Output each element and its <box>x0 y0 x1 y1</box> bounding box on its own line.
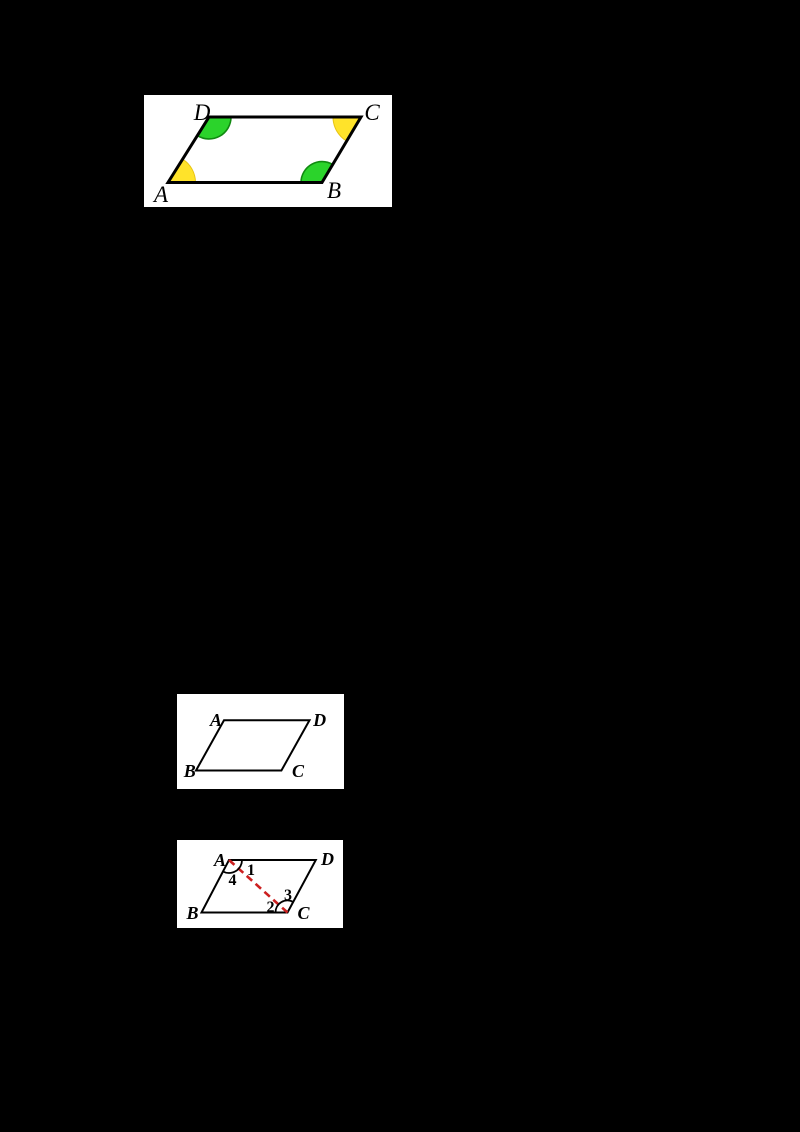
svg-text:A: A <box>209 710 222 730</box>
svg-text:A: A <box>213 850 226 870</box>
yellow angle wedge at A <box>168 159 196 182</box>
svg-text:3: 3 <box>284 887 292 904</box>
parallelogram outline <box>196 720 310 770</box>
yellow angle wedge at C <box>333 117 361 141</box>
svg-text:2: 2 <box>267 899 275 916</box>
red dashed diagonal AC <box>229 860 288 913</box>
green angle wedge at D <box>197 117 231 139</box>
svg-text:D: D <box>320 849 334 869</box>
parallelogram outline <box>202 860 316 913</box>
angle arc at C <box>275 900 293 912</box>
panel 2: plain parallelogram ABCD <box>177 694 344 789</box>
panel 3: parallelogram with red dashed diagonal AC and angles 1-4 <box>177 840 343 928</box>
svg-text:C: C <box>297 903 310 923</box>
svg-text:4: 4 <box>229 872 237 889</box>
green angle wedge at B <box>301 162 333 183</box>
angle arc at A <box>223 860 242 873</box>
svg-text:B: B <box>185 903 198 923</box>
svg-text:D: D <box>193 100 211 125</box>
svg-text:C: C <box>292 761 305 781</box>
panel 1: parallelogram ABCD with colored angle wedges <box>144 95 392 207</box>
svg-text:C: C <box>364 100 380 125</box>
svg-text:1: 1 <box>247 862 255 879</box>
svg-text:A: A <box>152 182 169 207</box>
svg-text:D: D <box>312 710 326 730</box>
svg-text:B: B <box>327 178 341 203</box>
svg-text:B: B <box>183 761 196 781</box>
parallelogram ABCD outline <box>168 117 361 183</box>
